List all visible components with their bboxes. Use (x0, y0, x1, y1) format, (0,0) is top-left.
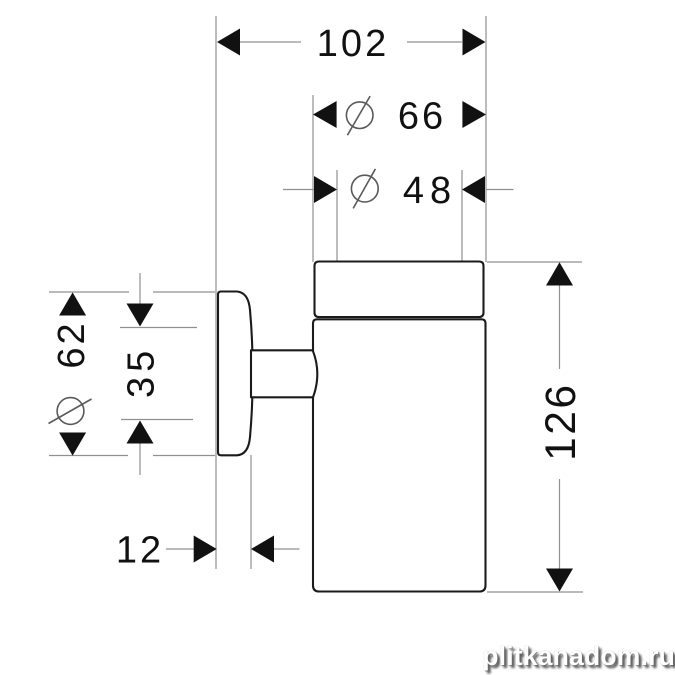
diameter symbol 66 (346, 102, 373, 129)
dimension 12 leaders (166, 548, 195, 550)
wall plate (218, 292, 253, 456)
arm (251, 350, 317, 397)
watermark plitkanadom.ru (482, 641, 675, 672)
dimension 48 leaders (283, 189, 314, 191)
extension lines bottom of plate (62) (49, 455, 128, 457)
extension lines for 35 (120, 327, 197, 329)
extension line left of 48 (336, 170, 338, 262)
diameter symbol 62 (57, 398, 84, 425)
dimension 102 arrows (217, 29, 240, 56)
extension line right of 48 (461, 170, 463, 262)
svg-text:62: 62 (51, 320, 93, 368)
dimension 102 line (240, 41, 301, 43)
dimension 35 arrows (127, 304, 154, 327)
svg-text:126: 126 (538, 382, 585, 460)
dimension 66 arrows (313, 101, 337, 128)
dimension 126 line (559, 285, 561, 369)
wall reference line (215, 16, 217, 569)
cup body (313, 319, 486, 591)
svg-text:35: 35 (121, 346, 163, 398)
dimension 62 arrows (59, 292, 86, 315)
svg-text:48: 48 (403, 170, 457, 212)
cup rim (315, 262, 484, 318)
svg-text:12: 12 (116, 530, 164, 572)
extension line plate front for 12 (250, 455, 252, 569)
dimension 12 arrows (194, 536, 217, 563)
extension line left of 66 (312, 95, 314, 262)
diameter symbol 48 (351, 175, 378, 202)
extension line right of 102/66 (485, 16, 487, 262)
extension lines top of plate (62) (49, 291, 129, 293)
dimension 35 line (139, 273, 141, 308)
dimension 48 arrows (314, 176, 337, 203)
extension lines for 126 (487, 261, 582, 263)
dimension 126 arrows (546, 262, 573, 285)
svg-text:66: 66 (398, 96, 446, 138)
svg-text:102: 102 (317, 23, 389, 65)
